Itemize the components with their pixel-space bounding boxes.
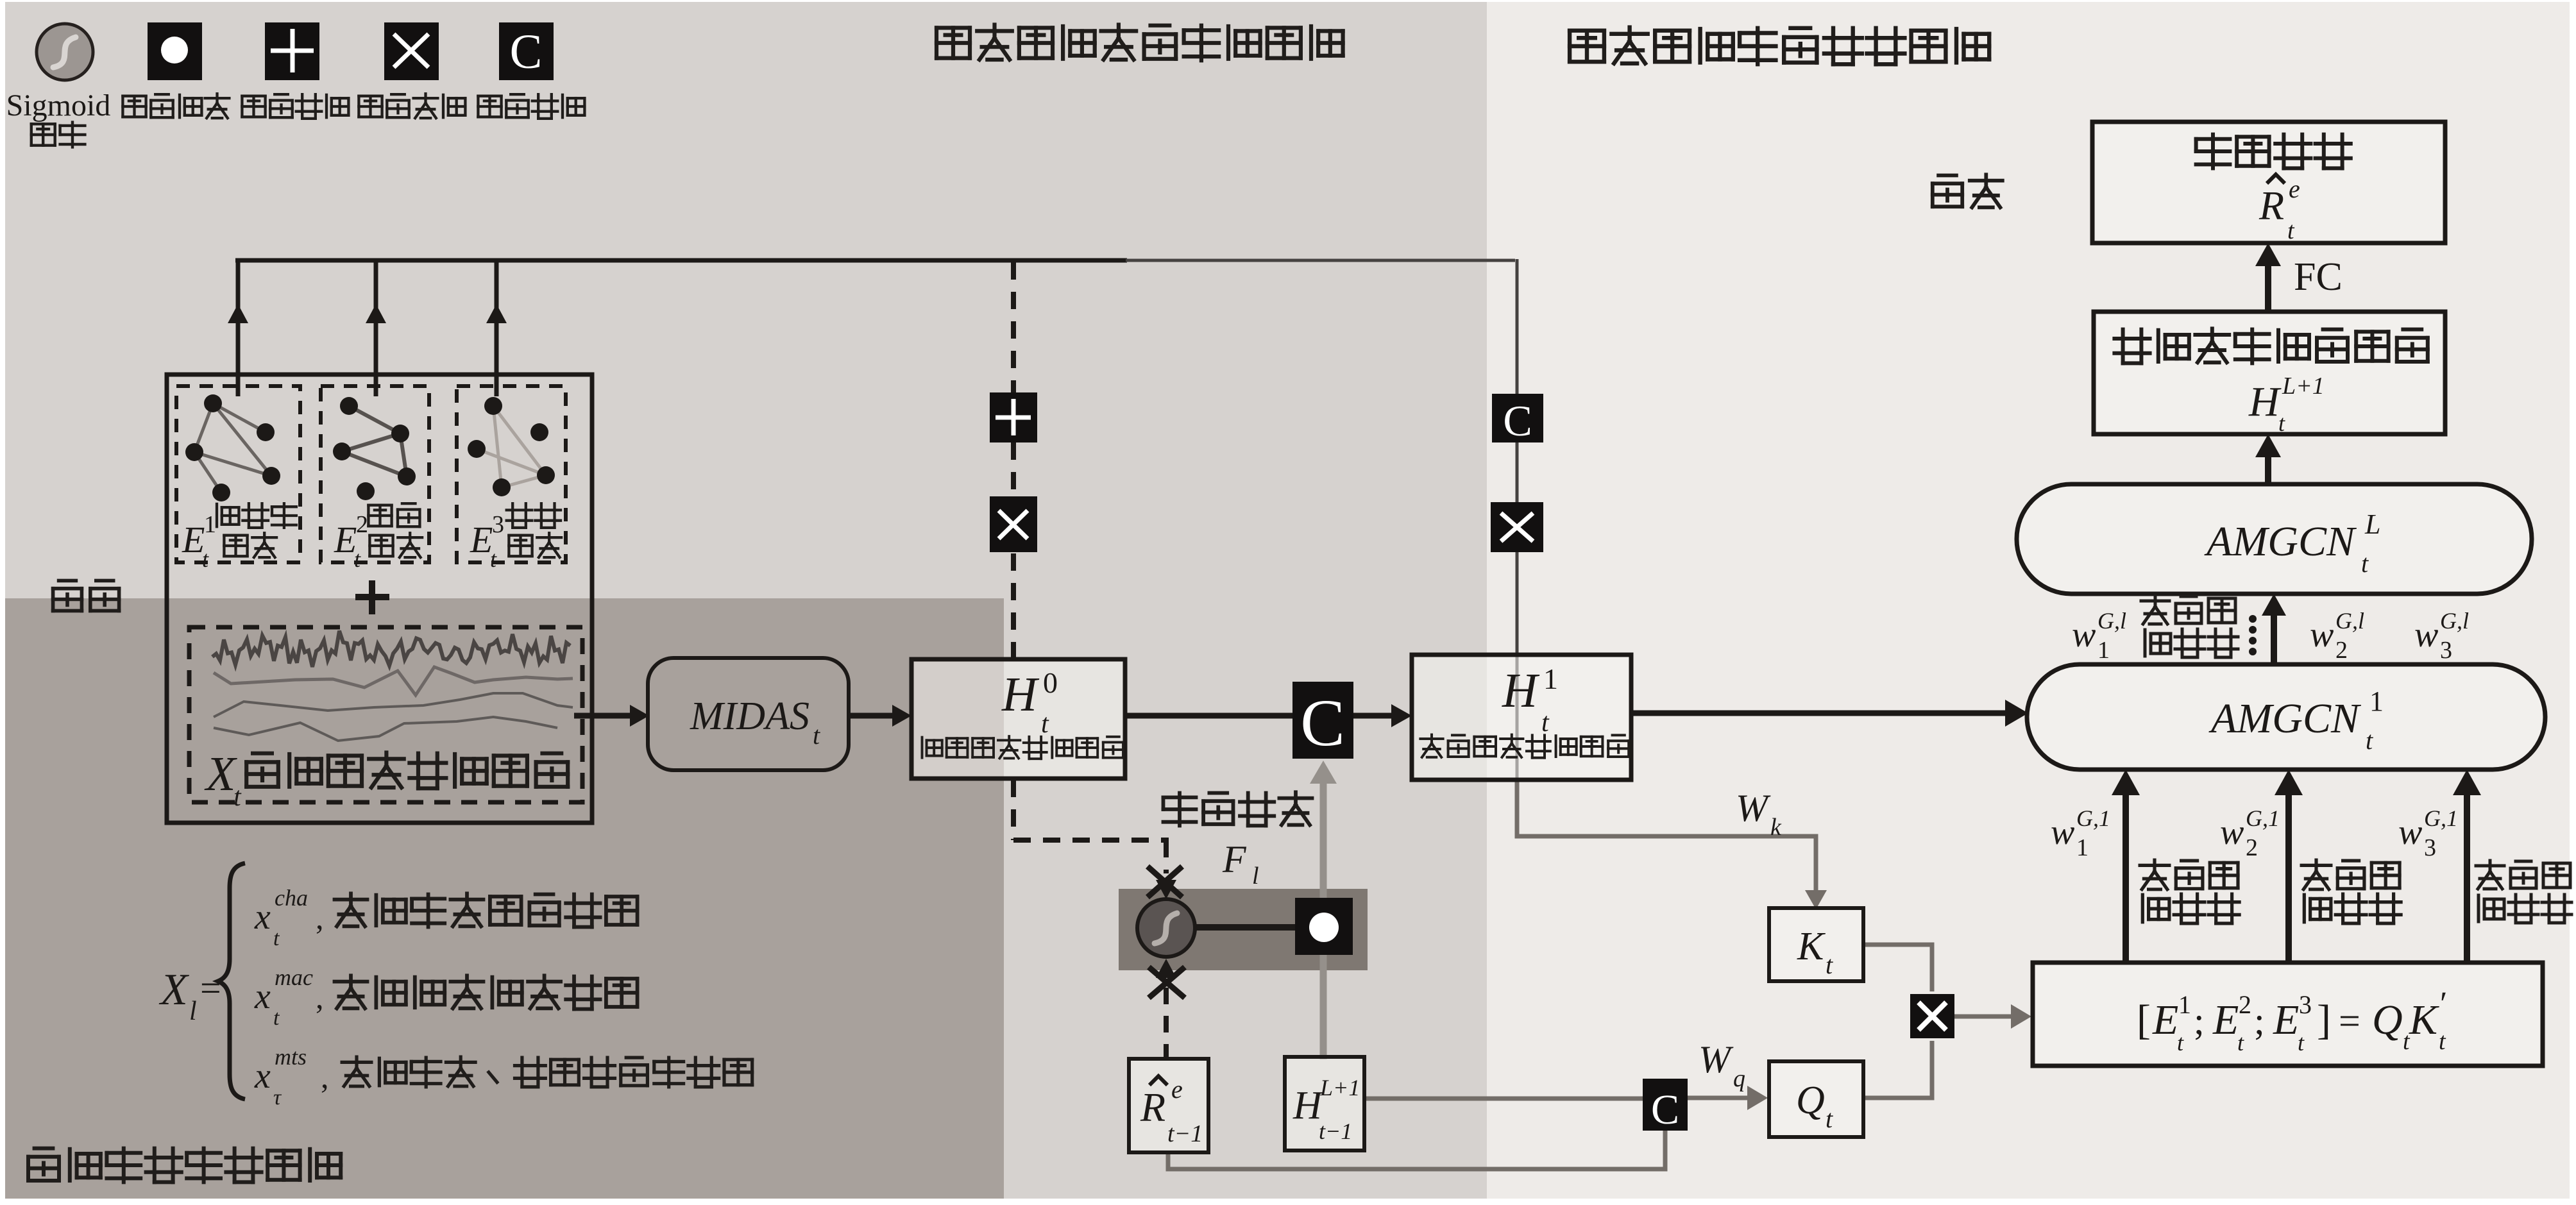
svg-text:′: ′ [2440, 986, 2447, 1022]
H1 box: cross-period network node features [1412, 655, 1631, 780]
legend multiply icon [384, 22, 439, 80]
dashed wire: H0 column with + and X [1011, 262, 1016, 392]
svg-text:t−1: t−1 [1319, 1118, 1352, 1144]
wire: gray column x=2365 from bus down to C concat [1516, 259, 1519, 394]
dots between w labels [2249, 615, 2257, 623]
svg-text:t: t [2237, 1030, 2244, 1056]
arrows: three E-network inputs up to bus [236, 260, 241, 396]
X_t dashed box [189, 627, 582, 802]
multiply icon on H0 column [990, 496, 1037, 552]
arrow: AMGCN-1 to AMGCN-L [2271, 616, 2277, 664]
svg-text:q: q [1733, 1065, 1745, 1092]
svg-text:;: ; [2254, 1000, 2265, 1042]
svg-text:w: w [2398, 813, 2422, 852]
svg-text:3: 3 [492, 511, 504, 538]
gate labels [1164, 792, 1312, 825]
svg-text:l: l [1252, 863, 1259, 889]
svg-text:FC: FC [2294, 255, 2343, 299]
svg-text:C: C [1651, 1086, 1679, 1133]
svg-text:t−1: t−1 [1167, 1120, 1203, 1147]
svg-text:2: 2 [2239, 990, 2251, 1019]
output box label [2196, 135, 2351, 169]
wire: gray column through gate dot-product up to big C [1320, 767, 1327, 899]
wire: under H1 box (visible through translucent fill) [1516, 656, 1519, 780]
svg-text:cha: cha [275, 885, 308, 911]
svg-text:W: W [1736, 787, 1771, 829]
svg-text:τ: τ [273, 1086, 282, 1109]
svg-text:t: t [2361, 549, 2369, 578]
wire: H(L+1,t-1) to C concat [1364, 1097, 1644, 1101]
gate sigmoid [1137, 899, 1195, 957]
arrow FC: topo features to stock return [2265, 265, 2271, 312]
network E2 dashed box [321, 386, 429, 562]
svg-text:E: E [470, 519, 493, 560]
graph E1 nodes [204, 394, 222, 412]
wire: top bus gray part to concat column [1126, 259, 1515, 262]
svg-text:C: C [1503, 396, 1532, 445]
svg-text:e: e [1171, 1075, 1183, 1104]
svg-text:L+1: L+1 [2282, 373, 2325, 400]
MIDAS box [648, 658, 849, 770]
svg-text:0: 0 [1043, 666, 1058, 699]
arrow: AMGCN-L to topo features [2265, 456, 2271, 484]
svg-text:t: t [2177, 1030, 2184, 1056]
svg-text:2: 2 [356, 511, 368, 538]
H(L+1)(t-1) box [1285, 1057, 1364, 1150]
svg-text:X: X [158, 965, 190, 1015]
svg-text:k: k [1770, 814, 1782, 841]
svg-text:1: 1 [2076, 834, 2089, 861]
svg-text:Q: Q [1796, 1079, 1825, 1122]
time series: slow line 2 [214, 717, 557, 741]
svg-text:t: t [490, 546, 497, 572]
svg-text:G,1: G,1 [2424, 805, 2458, 831]
wire: top bus from E-networks, black part [235, 258, 1127, 263]
arrow: big C to H1 [1353, 713, 1403, 719]
svg-text:1: 1 [1543, 662, 1558, 695]
svg-text:E: E [2212, 997, 2239, 1043]
svg-text:AMGCN: AMGCN [2204, 518, 2357, 565]
wire Wk: H1 bottom to K_t box [1517, 780, 1816, 904]
gate top crossed arrow [1156, 880, 1176, 899]
wire: C concat to Q_t [1688, 1096, 1748, 1100]
svg-text:H: H [1502, 664, 1540, 718]
legend dot-product icon [148, 22, 202, 80]
legend plus icon [265, 22, 319, 80]
concat icon on right column [1492, 394, 1543, 442]
legend concat icon [499, 22, 554, 80]
svg-text:G,1: G,1 [2076, 805, 2110, 831]
svg-text:t: t [273, 1006, 280, 1030]
time series: medium line [214, 667, 573, 695]
svg-text:w: w [2051, 813, 2074, 852]
svg-text:3: 3 [2424, 834, 2436, 861]
svg-text:mac: mac [275, 965, 313, 990]
wire: K_t to matrix-multiply [1863, 945, 1932, 991]
svg-text:t: t [2439, 1028, 2446, 1055]
network E1 dashed box [176, 386, 300, 562]
svg-text:t: t [273, 927, 280, 950]
svg-text:Q: Q [2372, 997, 2403, 1043]
svg-text:AMGCN: AMGCN [2208, 695, 2362, 742]
svg-text:C: C [510, 25, 543, 79]
wire: between C and X multiply icons [1516, 441, 1519, 502]
arrow: H1 to AMGCN1 [1631, 711, 2006, 716]
small C concat bottom [1643, 1079, 1688, 1131]
svg-text:;: ; [2194, 1000, 2205, 1042]
svg-text:=: = [2339, 1000, 2360, 1042]
svg-text:K: K [1797, 925, 1826, 968]
node high-order topo features box [2094, 312, 2445, 434]
Rhat(t-1) box [1129, 1059, 1208, 1152]
Q_t box [1769, 1061, 1863, 1137]
svg-text:t: t [2287, 217, 2295, 244]
AMGCN-1 stadium [2027, 664, 2545, 770]
svg-text:L: L [2364, 509, 2380, 540]
svg-text:2: 2 [2246, 834, 2258, 861]
gate bottom crossed arrow (dashed from Rhat) [1164, 988, 1169, 1059]
module background: cross-period propagation (medium gray) [5, 2, 1487, 1199]
svg-text:X: X [204, 747, 237, 801]
wire: multiply to E-attention box [1954, 1015, 2011, 1019]
svg-text:w: w [2220, 813, 2244, 852]
wire: X icon down to H1 box top [1516, 551, 1519, 656]
svg-text:t: t [354, 546, 361, 572]
svg-text:W: W [1699, 1038, 1734, 1081]
svg-text:t: t [1826, 950, 1833, 979]
K_t box [1769, 908, 1863, 981]
gate dot-product icon [1295, 898, 1353, 955]
svg-text:x: x [254, 1056, 271, 1096]
svg-text:E: E [334, 519, 357, 560]
big C concat between H0 and H1 [1292, 682, 1353, 759]
svg-text:E: E [182, 519, 205, 560]
svg-text:[: [ [2137, 997, 2151, 1043]
module background: same-period interaction (light gray) [1487, 2, 2570, 1199]
H0 box: initial network node features [911, 659, 1125, 779]
svg-text:x: x [254, 977, 271, 1016]
E-attention box [2033, 963, 2543, 1066]
svg-text:E: E [2152, 997, 2178, 1043]
dashed wire: below H0 to gate [1011, 780, 1016, 840]
svg-text:E: E [2273, 997, 2299, 1043]
gate mechanism dark band [1119, 889, 1368, 970]
svg-text:H: H [1001, 668, 1040, 721]
svg-text:1: 1 [204, 511, 216, 538]
multiply icon bottom right [1910, 994, 1954, 1038]
svg-text:w: w [2310, 615, 2334, 655]
time series: slow line 1 [214, 693, 573, 717]
wire: Rhat(t-1) loop to C concat bottom [1168, 1129, 1665, 1169]
svg-text:L+1: L+1 [1319, 1075, 1360, 1100]
svg-text:x: x [254, 897, 271, 937]
svg-text:2: 2 [2335, 637, 2348, 664]
svg-text:t: t [1041, 709, 1049, 739]
stock return output box [2092, 122, 2445, 243]
wire: sigmoid to dot-product [1193, 924, 1295, 931]
wire: H0 to big C concat [1125, 713, 1292, 719]
svg-text:l: l [189, 997, 197, 1026]
svg-text:C: C [1300, 686, 1344, 760]
graph E1 edges [213, 403, 266, 432]
svg-text:t: t [233, 782, 242, 812]
module background: mixed-frequency data processing (dark gray) [5, 598, 1004, 1199]
input container box [167, 375, 592, 823]
graph E3 edges [493, 406, 546, 475]
svg-text:3: 3 [2440, 637, 2452, 664]
topo box label [2114, 328, 2427, 363]
svg-text:=: = [200, 967, 221, 1009]
svg-text:F: F [1222, 838, 1247, 881]
svg-text:Sigmoid: Sigmoid [6, 88, 111, 122]
module titles [936, 25, 1343, 61]
svg-text:t: t [1826, 1104, 1833, 1133]
svg-text:t: t [2298, 1030, 2305, 1056]
arrows: E-attention up to AMGCN-1 (x3) [2123, 795, 2129, 963]
svg-text:G,l: G,l [2097, 608, 2126, 634]
svg-text:e: e [2289, 174, 2300, 203]
svg-text:]: ] [2317, 997, 2331, 1043]
curly brace [218, 863, 245, 1099]
svg-text:1: 1 [2369, 686, 2384, 717]
svg-text:t: t [1541, 708, 1550, 737]
io labels [53, 580, 119, 611]
svg-text:t: t [202, 546, 209, 572]
svg-text:G,l: G,l [2440, 608, 2469, 634]
svg-text:1: 1 [2178, 990, 2191, 1019]
svg-text:w: w [2414, 615, 2438, 655]
plus icon on H0 column [990, 392, 1037, 442]
graph E3 nodes [484, 397, 502, 415]
svg-text:G,l: G,l [2335, 608, 2364, 634]
svg-text:G,1: G,1 [2246, 805, 2280, 831]
arrow: X_t box to MIDAS [574, 713, 641, 719]
svg-text:1: 1 [2097, 637, 2110, 664]
svg-text:H: H [2248, 378, 2282, 425]
svg-text:,: , [321, 1059, 329, 1095]
plus between networks and X_t [355, 594, 389, 600]
graph E2 nodes [340, 397, 358, 415]
svg-text:t: t [813, 721, 820, 750]
svg-text:R: R [1140, 1084, 1165, 1130]
legend sigmoid icon [37, 24, 93, 80]
svg-text:,: , [316, 900, 324, 936]
multiply icon on right column [1491, 502, 1543, 552]
wire: Q_t to matrix-multiply [1863, 1041, 1932, 1098]
svg-text:,: , [316, 979, 324, 1015]
svg-text:w: w [2072, 615, 2096, 655]
svg-text:t: t [2278, 410, 2285, 436]
svg-text:3: 3 [2299, 990, 2312, 1019]
AMGCN-L stadium [2017, 484, 2532, 594]
graph E2 edges [349, 406, 400, 434]
svg-text:R: R [2258, 183, 2284, 228]
time series: high-frequency jagged [212, 631, 570, 667]
arrow: MIDAS to H0 [849, 713, 904, 719]
network E3 dashed box [457, 386, 566, 562]
svg-text:t: t [2366, 726, 2373, 755]
svg-text:mts: mts [275, 1044, 307, 1070]
svg-text:K: K [2409, 997, 2439, 1043]
svg-text:MIDAS: MIDAS [690, 695, 809, 738]
